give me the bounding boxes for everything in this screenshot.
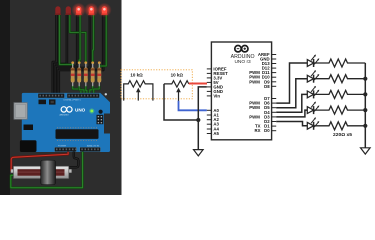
wire green anode LED5 to R5 [99, 15, 106, 68]
resistor symbol row1 [314, 59, 366, 67]
svg-text:220Ω x5: 220Ω x5 [333, 132, 352, 138]
board bottom header power block [55, 147, 77, 152]
wire red 5V to motor [11, 152, 68, 171]
wire D3 to LED row4 [276, 110, 307, 117]
ground symbol left [194, 150, 204, 156]
Arduino Uno board [22, 93, 111, 152]
svg-text:D8: D8 [264, 84, 270, 89]
breadboard panel background [0, 0, 122, 195]
board power LED (green, on) [89, 108, 94, 113]
wire green R4 to header [90, 86, 93, 98]
junction node bus row4 [363, 108, 367, 112]
svg-text:DIGITAL (PWM~): DIGITAL (PWM~) [64, 99, 81, 102]
wire green R1 to header [73, 86, 81, 98]
header pin dots bottom [56, 148, 99, 150]
U1 PWM and TX RX labels [249, 70, 260, 133]
wire black RP2 left to ground rail [164, 84, 198, 120]
wire green R3 to header [86, 86, 87, 98]
U1 right pin labels [258, 52, 270, 133]
junction node bus row5 [363, 124, 367, 128]
wire black cathode LED5 [59, 15, 103, 95]
wire green anode LED1 to R1 [60, 15, 73, 66]
potentiometer RP2 10k label [171, 73, 184, 78]
resistor value label 220 ohm x5 [333, 132, 352, 138]
board capacitor [99, 110, 103, 114]
wire green anode LED3 to R3 [78, 15, 81, 64]
U1 left pin stubs [207, 69, 212, 134]
junction node bus row2 [363, 77, 367, 81]
op: Arduino Uno U1 body [211, 42, 271, 140]
LED symbol row2 [307, 70, 319, 83]
junction node at ground rail [196, 118, 200, 122]
ATmega328 DIP IC [56, 128, 99, 141]
resistor symbol row3 [314, 90, 366, 98]
resistor pictorial R4 [91, 64, 95, 87]
potentiometer RP1 10k label [130, 73, 143, 78]
svg-text:RX: RX [255, 128, 261, 133]
svg-text:D0: D0 [264, 128, 270, 133]
DC motor body [11, 166, 72, 178]
USB connector [14, 103, 27, 120]
ground bus wire right [364, 63, 366, 148]
wire black cathode LED2 [54, 15, 67, 95]
potentiometer RP2 [164, 81, 189, 101]
wire black cathode LED1 [53, 15, 57, 95]
board infinity logo and UNO text [60, 107, 86, 117]
svg-text:UNO r3: UNO r3 [234, 59, 251, 65]
resistor symbol row4 [314, 106, 366, 114]
reset button [49, 99, 56, 104]
board digital label text [64, 99, 81, 102]
wire black cathode LED3 [56, 15, 77, 95]
LED3 pictorial (lit) [71, 3, 85, 17]
wire D5 to LED row2 [276, 79, 307, 108]
DC motor center cylinder [41, 160, 56, 184]
potentiometer RP1 [124, 81, 153, 101]
resistor pictorial R1 [71, 64, 75, 87]
resistor top pads [71, 61, 100, 64]
ICSP header block [39, 100, 47, 105]
svg-text:PWM: PWM [249, 105, 260, 110]
ICSP header 2x3 [97, 115, 104, 124]
wire green to motor [11, 152, 83, 188]
LED4 pictorial (lit) [84, 3, 98, 17]
svg-text:UNO: UNO [75, 107, 86, 112]
resistor symbol row5 [314, 122, 366, 130]
LED1 pictorial (off) [55, 6, 61, 15]
wire green anode LED2 to R2 [70, 15, 86, 64]
svg-text:10 kΩ: 10 kΩ [171, 73, 184, 78]
wire black to motor [69, 152, 78, 168]
LED symbol row5 [307, 117, 319, 130]
U1 left pin labels [213, 66, 228, 136]
board analog/power labels [58, 145, 100, 148]
LED2 pictorial (off) [65, 6, 71, 15]
wire blue RP2 wiper to A0 [179, 101, 207, 111]
svg-text:PWM: PWM [249, 79, 260, 84]
header pin dots top [39, 95, 97, 97]
voltage regulator [24, 125, 34, 131]
wire D4 to LED row3 [276, 94, 307, 112]
svg-text:Vin: Vin [213, 93, 220, 98]
resistor pictorial R3 [84, 64, 88, 87]
svg-text:10 kΩ: 10 kΩ [130, 73, 143, 78]
LED symbol row3 [307, 86, 319, 99]
left toolbar strip [0, 0, 10, 195]
svg-text:PWM: PWM [249, 114, 260, 119]
U1 infinity logo [235, 46, 248, 52]
resistor symbol row2 [314, 75, 366, 83]
wire green R5 to header [94, 86, 100, 98]
LED5 pictorial (lit) [97, 3, 111, 17]
wire green anode LED4 to R4 [91, 15, 94, 64]
resistor pictorial R5 [97, 64, 101, 87]
power jack [20, 140, 37, 152]
selection box (orange dashed) around potentiometers [121, 70, 192, 99]
svg-text:A5: A5 [213, 131, 219, 136]
board top header right block [67, 93, 100, 98]
U1 right pin stubs [272, 55, 277, 131]
wire black GND pin down to ground [198, 87, 207, 150]
board bottom header analog block [80, 147, 101, 152]
U1 title text [231, 54, 255, 65]
wire D6 to LED row1 [276, 63, 307, 103]
wire green R2 to header [79, 86, 84, 98]
LED symbol row4 [307, 102, 319, 115]
junction node bus row3 [363, 92, 367, 96]
ground symbol right [361, 148, 371, 154]
LED symbol row1 [307, 54, 319, 67]
board top header left block [38, 93, 65, 98]
resistor pictorial R2 [77, 64, 81, 87]
svg-text:ARDUINO: ARDUINO [60, 114, 70, 117]
wire red RP2 to 5V [189, 83, 207, 85]
wire black cathode LED4 [57, 15, 90, 95]
wire D2 to LED row5 [276, 122, 307, 126]
